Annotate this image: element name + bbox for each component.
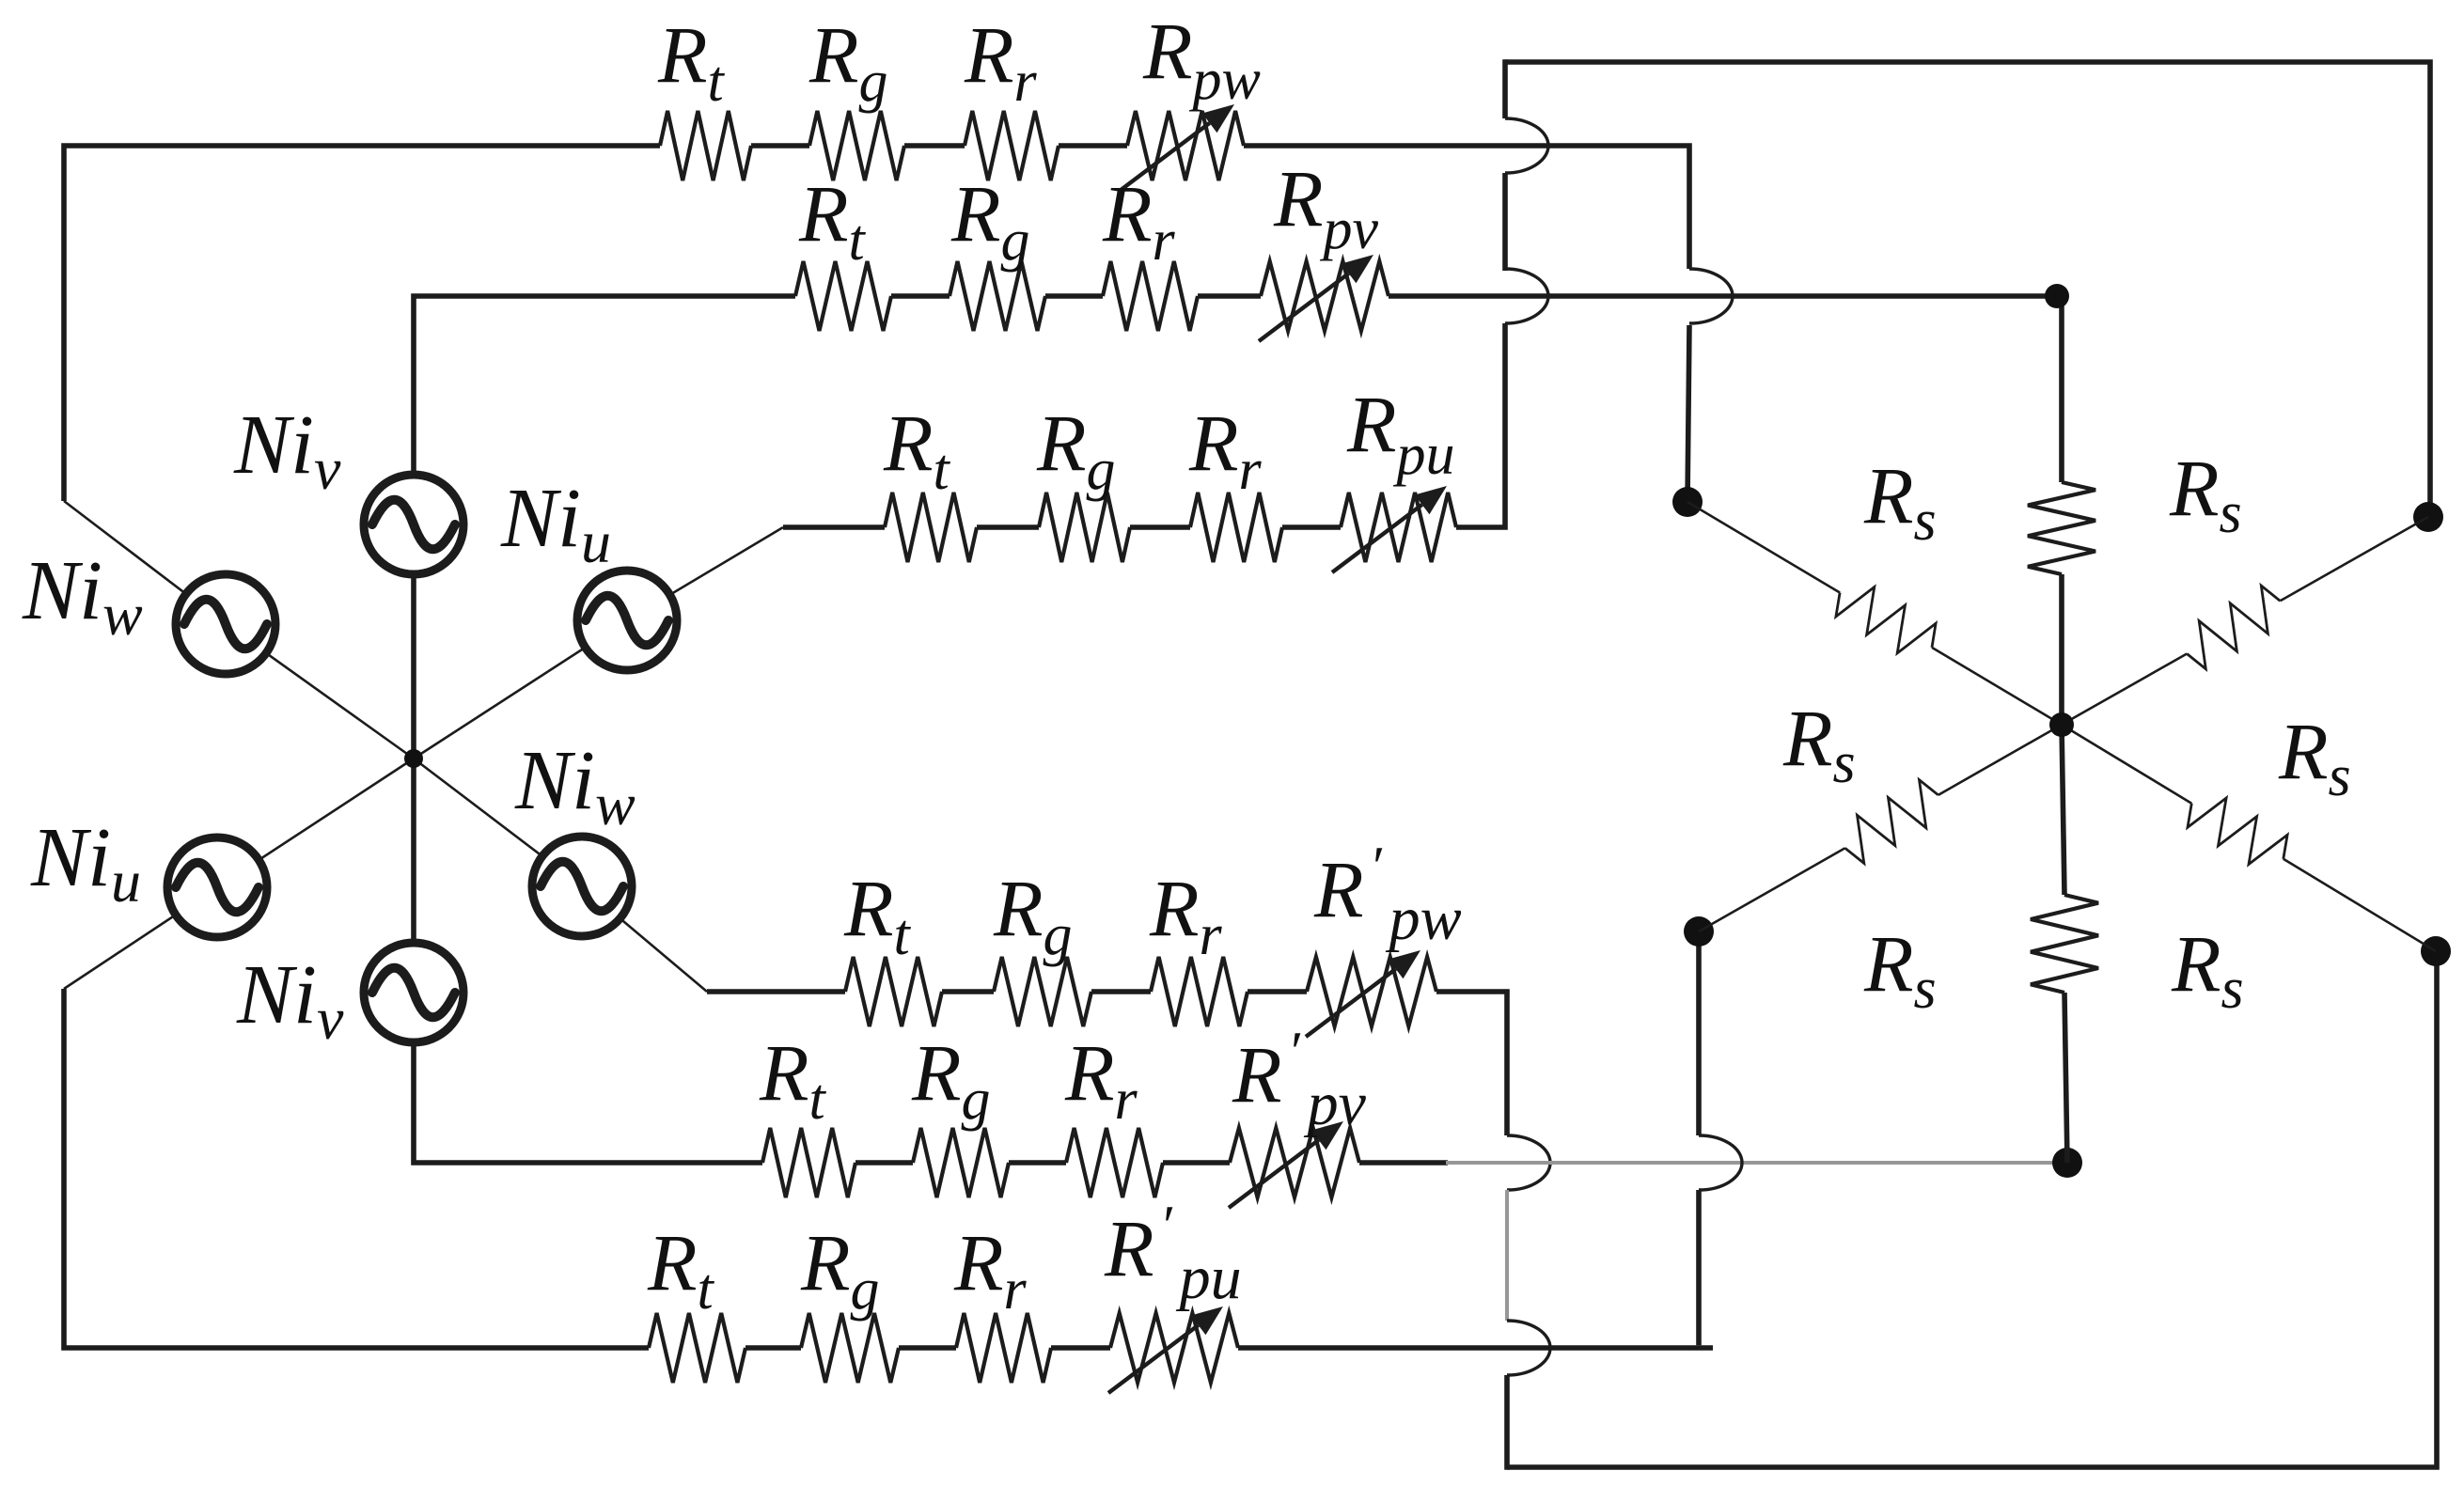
node chain2 to sense bus — [2045, 284, 2069, 308]
resistor R_s lower-left diagonal — [1699, 848, 1845, 931]
resistor R_r (chain5) — [1066, 1128, 1163, 1197]
wire chain4 segment D — [1248, 989, 1307, 994]
wire right bus to chain5 node — [2064, 993, 2067, 1163]
resistor R_g (chain2) — [950, 261, 1045, 331]
crossover hop bus1 over chain1 — [1505, 118, 1548, 173]
wire star up branch — [411, 578, 416, 939]
wire chain2 left vertical and run — [414, 296, 795, 471]
resistor R_s upper-right diagonal — [2280, 517, 2428, 601]
crossover hop bus1-low over chain5 — [1507, 1135, 1550, 1190]
wire star lower-left diagonal — [64, 759, 414, 989]
wire chain3 segment B — [977, 524, 1039, 530]
resistor R_s upper vertical — [2028, 482, 2095, 574]
wire bottom horizontal and right rise — [1507, 951, 2437, 1467]
node chain5 to sense bus — [2052, 1148, 2082, 1178]
wire bus2-low lower segment — [1696, 1190, 1702, 1345]
wire chain3 segment C — [1130, 524, 1190, 530]
wire chain2 segment C — [1045, 293, 1103, 299]
wire star upper-left diagonal — [64, 501, 414, 759]
wire chain1 segment C — [904, 143, 965, 149]
wire chain6 segment C — [899, 1345, 956, 1351]
wire bus1 top segment — [1502, 59, 1508, 118]
wire top horizontal and right drop — [1505, 62, 2430, 517]
wire chain4 segment B — [942, 989, 994, 994]
node lower-right of bridge — [2421, 936, 2451, 966]
resistor R_r (chain3) — [1190, 493, 1282, 562]
wire bus1 middle segment — [1502, 173, 1508, 271]
resistor R_g (chain5) — [913, 1128, 1009, 1197]
wire chain4 segment E — [1436, 992, 1507, 1135]
resistor R_r (chain1) — [965, 111, 1059, 180]
wire chain1 segment E — [1244, 146, 1689, 269]
wire chain5 segment E black — [1359, 1160, 1448, 1166]
crossover hop bus2 over chain2 — [1689, 269, 1733, 323]
node lower-left of bridge — [1684, 916, 1714, 947]
resistor R'_pv variable (chain5) — [1230, 1128, 1359, 1197]
resistor R_s lower-right diagonal — [2284, 859, 2436, 951]
wire chain3 segment A — [783, 524, 885, 530]
wire bus1-low bottom segment — [1504, 1375, 1510, 1470]
resistor R_g (chain3) — [1039, 493, 1130, 562]
wire chain5 segment F gray — [1446, 1161, 2067, 1165]
wire star lower-right diagonal — [414, 759, 707, 992]
wire chain6 left vertical and bottom — [64, 989, 649, 1348]
crossover hop bus1 over chain2 — [1505, 269, 1548, 323]
wire star upper-right diagonal — [414, 527, 783, 759]
wire right bus to centre — [2059, 574, 2064, 725]
wire chain3 segment D — [1282, 524, 1341, 530]
crossover hop bus2-low over chain5 — [1699, 1135, 1742, 1190]
resistor R_t (chain2) — [795, 261, 891, 331]
wire chain2 segment D — [1198, 293, 1261, 299]
wire chain4 segment C — [1091, 989, 1151, 994]
wire chain6 segment D — [1051, 1345, 1110, 1351]
wire chain3 segment E — [1456, 323, 1505, 527]
node bridge centre — [2049, 712, 2074, 737]
wire chain1 segment D — [1059, 143, 1127, 149]
wire chain5 left vertical and run — [414, 1046, 762, 1163]
resistor R_s lower vertical — [2031, 895, 2098, 993]
wire chain1 segment B — [751, 143, 809, 149]
resistor R_s upper-left diagonal — [1687, 502, 1840, 592]
resistor R_g (chain1) — [809, 111, 904, 180]
source Ni_v (bottom) — [364, 943, 463, 1042]
wire bus1-low gray segment — [1505, 1190, 1509, 1321]
resistor R_pv variable (chain2) — [1261, 261, 1389, 331]
resistor R'_pw variable (chain4) — [1307, 957, 1436, 1026]
resistor R_pw variable (chain1) — [1127, 111, 1244, 180]
wire chain2 segment B — [891, 293, 950, 299]
wire bus2 lower segment — [1687, 325, 1689, 502]
source Ni_u (upper-right) — [577, 571, 677, 670]
wire right bus lower — [2062, 725, 2064, 895]
resistor R_t (chain1) — [660, 111, 751, 180]
resistor R'_pu variable (chain6) — [1110, 1313, 1238, 1383]
resistor R_t (chain5) — [762, 1128, 855, 1197]
node star centre — [404, 749, 423, 768]
wire chain5 segment C — [1009, 1160, 1066, 1166]
resistor R_r (chain4) — [1151, 957, 1248, 1026]
wire chain6 segment B — [745, 1345, 801, 1351]
source Ni_v (top) — [364, 475, 463, 574]
resistor R_t (chain4) — [845, 957, 942, 1026]
node upper-right of bridge — [2413, 502, 2443, 532]
wire chain5 segment D — [1163, 1160, 1230, 1166]
wire bus2-low upper segment — [1696, 931, 1702, 1135]
resistor R_r (chain6) — [956, 1313, 1051, 1383]
source Ni_w (upper-left) — [176, 574, 275, 674]
source Ni_w (lower-right) — [532, 837, 632, 936]
wire chain5 segment B — [855, 1160, 913, 1166]
resistor R_t (chain6) — [649, 1313, 745, 1383]
resistor R_r (chain2) — [1103, 261, 1198, 331]
wire chain4 segment A — [707, 989, 845, 994]
resistor R_g (chain4) — [994, 957, 1091, 1026]
resistor R_g (chain6) — [801, 1313, 899, 1383]
wire chain6 segment E — [1238, 1345, 1713, 1351]
resistor R_pu variable (chain3) — [1341, 493, 1456, 562]
node upper-left of bridge — [1672, 487, 1703, 517]
crossover hop bus1-low over chain6 — [1507, 1321, 1550, 1375]
resistor R_t (chain3) — [885, 493, 977, 562]
wire chain1 left vertical and top — [64, 146, 660, 501]
wire chain2 segment E — [1389, 296, 2062, 482]
source Ni_u (lower-left) — [167, 837, 267, 937]
